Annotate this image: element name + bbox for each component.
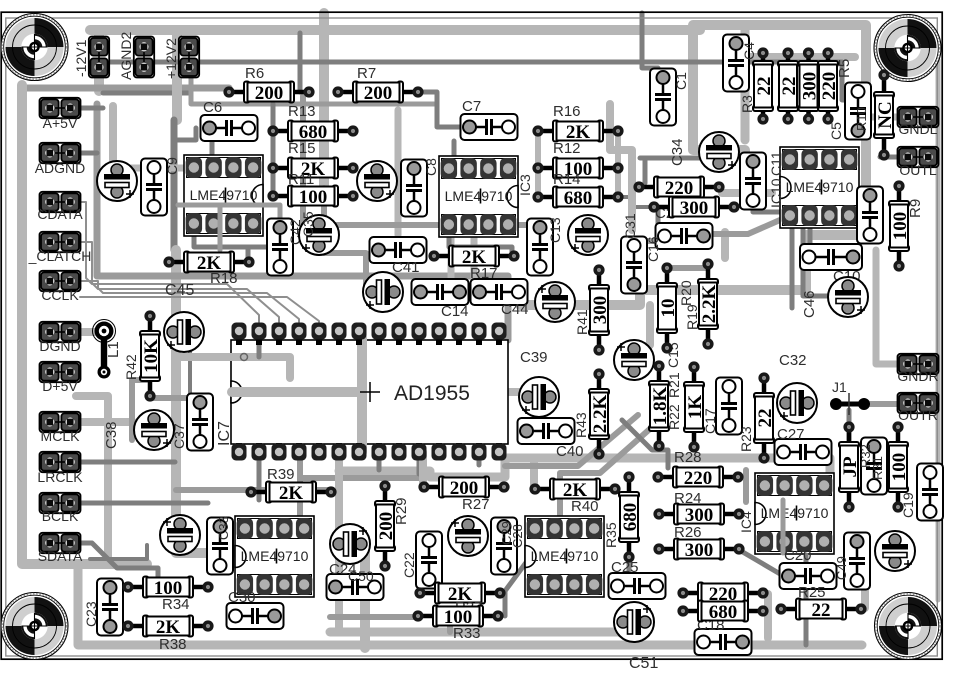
connector LRCLK <box>40 452 81 472</box>
wire <box>530 458 538 487</box>
electrolytic capacitor E9 <box>614 340 654 380</box>
resistor 220 <box>677 583 768 605</box>
svg-text:R22: R22 <box>666 404 682 430</box>
resistor R12 100 <box>532 158 623 180</box>
svg-text:R7: R7 <box>357 65 376 82</box>
capacitor Cx (vertical) <box>861 438 887 495</box>
svg-text:MCLK: MCLK <box>41 428 81 444</box>
svg-text:R5: R5 <box>836 59 853 78</box>
wire <box>330 614 418 620</box>
svg-text:C20: C20 <box>784 547 812 564</box>
svg-text:C41: C41 <box>392 259 420 276</box>
svg-text:R14: R14 <box>553 171 581 188</box>
connector -12V1 <box>89 37 109 78</box>
resistor R29 200 (vertical) <box>375 480 397 571</box>
op-amp IC3 footprint <box>439 156 518 237</box>
wire <box>741 30 750 140</box>
wire <box>246 247 251 262</box>
svg-text:C27: C27 <box>777 426 805 443</box>
capacitor C20 <box>780 563 837 589</box>
inductor L1 <box>93 320 116 379</box>
svg-text:C49: C49 <box>834 556 849 580</box>
wire <box>339 458 830 477</box>
svg-text:DGND: DGND <box>39 338 80 354</box>
resistor 22 (vertical) <box>778 47 800 124</box>
capacitor C1 (vertical) <box>650 69 676 126</box>
svg-text:R20: R20 <box>678 280 694 306</box>
resistor R34 100 <box>122 577 213 599</box>
svg-text:R13: R13 <box>288 103 316 120</box>
svg-text:R24: R24 <box>674 490 702 507</box>
wire <box>70 543 158 578</box>
svg-text:R11: R11 <box>288 171 314 188</box>
svg-text:2.2K: 2.2K <box>699 285 720 324</box>
wire <box>257 340 262 357</box>
electrolytic capacitor E1 <box>97 161 137 201</box>
svg-text:C24: C24 <box>329 561 357 578</box>
svg-text:100: 100 <box>889 453 910 482</box>
svg-text:AGND2: AGND2 <box>118 32 134 80</box>
svg-text:R29: R29 <box>393 497 410 525</box>
wire <box>303 96 530 225</box>
resistor R40 2K <box>529 479 620 501</box>
wire <box>319 13 329 190</box>
mounting hole <box>874 15 941 82</box>
electrolytic capacitor C24 <box>330 524 370 564</box>
capacitor C4 (vertical) <box>723 35 749 92</box>
wire <box>781 500 786 553</box>
svg-text:300: 300 <box>680 198 709 219</box>
svg-text:R27: R27 <box>462 496 490 513</box>
wire <box>880 155 898 160</box>
svg-text:C11: C11 <box>768 151 784 176</box>
wire <box>72 418 133 426</box>
capacitor C49 (vertical) <box>844 533 870 590</box>
wire <box>804 555 809 645</box>
wire <box>70 281 299 322</box>
wire <box>300 478 423 487</box>
svg-text:R28: R28 <box>674 449 702 466</box>
resistor R42 10K (vertical) <box>140 310 162 401</box>
svg-text:C28: C28 <box>510 524 525 548</box>
resistor R22 1K (vertical) <box>684 361 706 452</box>
electrolytic capacitor E5 <box>299 215 339 255</box>
wire <box>847 410 852 440</box>
electrolytic capacitor C46 <box>828 277 868 317</box>
resistor R9 100 (vertical) <box>889 180 911 271</box>
wire <box>790 227 795 308</box>
electrolytic capacitor E17 <box>875 531 915 571</box>
svg-text:300: 300 <box>590 296 611 325</box>
wire <box>610 104 632 230</box>
wire <box>377 452 382 470</box>
svg-text:C40: C40 <box>556 443 584 460</box>
capacitor C23 (vertical) <box>97 579 123 636</box>
svg-text:LME49710: LME49710 <box>531 548 599 564</box>
wire <box>643 158 648 183</box>
svg-text:22: 22 <box>779 77 800 96</box>
wire <box>447 620 453 632</box>
svg-text:R42: R42 <box>123 354 139 380</box>
wire <box>864 401 898 407</box>
svg-text:C44: C44 <box>501 301 529 318</box>
wire <box>174 128 196 140</box>
svg-text:C6: C6 <box>203 99 222 116</box>
electrolytic capacitor E2 <box>357 161 397 201</box>
svg-text:10K: 10K <box>141 339 162 373</box>
wire <box>861 570 869 608</box>
wire <box>803 227 828 296</box>
wire <box>335 452 343 630</box>
svg-text:ADGND: ADGND <box>35 160 86 176</box>
svg-text:C39: C39 <box>520 349 548 366</box>
capacitor C29 (vertical) <box>491 518 517 575</box>
wire <box>764 594 772 638</box>
connector A+5V <box>40 98 81 118</box>
wire <box>232 387 362 397</box>
svg-text:22: 22 <box>754 77 775 96</box>
svg-text:C4: C4 <box>741 42 757 60</box>
svg-text:C31: C31 <box>622 213 638 239</box>
svg-text:R10: R10 <box>854 107 869 131</box>
op-amp IC1 footprint <box>184 155 263 236</box>
wire <box>743 470 749 502</box>
resistor 300 (vertical) <box>799 47 821 124</box>
connector CDATA <box>40 192 81 212</box>
electrolytic capacitor C32e <box>777 383 817 423</box>
wire <box>109 106 117 160</box>
wire <box>22 85 229 92</box>
wire <box>210 120 215 158</box>
wire <box>505 549 536 616</box>
capacitor C22 (vertical) <box>416 532 442 589</box>
electrolytic capacitor C34 <box>699 132 739 172</box>
wire <box>90 25 700 35</box>
svg-text:680: 680 <box>620 503 641 532</box>
svg-text:R40: R40 <box>571 498 599 515</box>
wire <box>560 420 660 516</box>
svg-text:IC10: IC10 <box>768 178 784 208</box>
electrolytic capacitor E15 <box>448 516 488 556</box>
wire <box>640 156 700 161</box>
svg-text:R3: R3 <box>739 95 755 113</box>
capacitor C13 (vertical) <box>527 219 553 276</box>
resistor R17 2K <box>428 246 519 268</box>
capacitor C25 <box>609 573 666 599</box>
connector BCLK <box>40 493 81 513</box>
svg-text:R17: R17 <box>470 265 498 282</box>
mounting hole <box>1 593 68 660</box>
op-amp IC5 footprint <box>235 516 314 597</box>
wire <box>194 218 280 247</box>
wire <box>94 30 104 91</box>
wire <box>360 540 370 648</box>
wire <box>90 545 147 559</box>
wire <box>448 218 455 282</box>
resistor R33 100 <box>412 606 503 628</box>
electrolytic capacitor E4 <box>568 215 608 255</box>
wire <box>330 628 645 637</box>
wire <box>70 106 103 111</box>
resistor 100 (vertical) <box>888 421 910 512</box>
wire <box>618 197 653 207</box>
capacitor C27h <box>775 439 832 465</box>
svg-text:R23: R23 <box>738 426 754 452</box>
wire <box>70 151 97 156</box>
capacitor C18 <box>695 629 752 655</box>
capacitor C43 (vertical) <box>857 187 883 244</box>
wire <box>722 189 772 197</box>
wire <box>191 67 437 104</box>
op-amp IC4 footprint <box>755 473 834 554</box>
connector AGND2 <box>134 37 154 78</box>
resistor R43 2.2K (vertical) <box>589 368 611 459</box>
wire <box>178 205 280 222</box>
svg-text:C22: C22 <box>401 552 417 578</box>
wire <box>706 220 780 234</box>
svg-text:JP: JP <box>840 456 861 478</box>
resistor R37 2K <box>414 583 505 605</box>
resistor R25 22 <box>775 599 866 621</box>
wire <box>471 218 478 282</box>
svg-text:-12V1: -12V1 <box>73 39 89 77</box>
svg-text:IC7: IC7 <box>216 421 233 446</box>
wire <box>110 62 858 122</box>
svg-text:R18: R18 <box>210 270 238 287</box>
svg-text:100: 100 <box>299 187 328 208</box>
capacitor C41 <box>370 237 427 263</box>
wire <box>324 188 366 285</box>
wire <box>129 380 135 440</box>
wire <box>419 452 427 485</box>
resistor R38 2K <box>122 616 213 638</box>
connector _CLATCH <box>40 232 81 252</box>
connector DGND <box>40 322 81 342</box>
wire <box>78 564 862 645</box>
electrolytic capacitor C39e <box>519 377 559 417</box>
wire <box>188 350 192 402</box>
wire <box>477 452 482 465</box>
capacitor C9 (vertical) <box>141 159 167 216</box>
svg-text:R16: R16 <box>553 103 581 120</box>
resistor R11 100 <box>267 186 358 208</box>
wire <box>103 91 191 96</box>
svg-text:GNDR: GNDR <box>897 368 938 384</box>
connector GNDR <box>898 354 939 374</box>
svg-text:A+5V: A+5V <box>43 115 78 131</box>
wire <box>132 377 148 383</box>
svg-text:R34: R34 <box>162 596 190 613</box>
electrolytic capacitor E13 <box>160 515 200 555</box>
resistor R23 22 (vertical) <box>754 372 776 463</box>
svg-text:C51: C51 <box>629 655 658 672</box>
wire <box>449 218 512 257</box>
electrolytic capacitor E6 <box>535 282 575 322</box>
wire <box>667 265 708 271</box>
svg-text:_CLATCH: _CLATCH <box>28 248 92 264</box>
resistor R7 200 <box>332 82 423 104</box>
resistor 1.8K (vertical) <box>649 360 671 451</box>
capacitor C7 <box>461 114 518 140</box>
svg-text:680: 680 <box>564 188 593 209</box>
resistor 680 <box>677 601 768 623</box>
svg-text:OUTL: OUTL <box>899 162 937 178</box>
mounting hole <box>875 593 942 660</box>
wire <box>80 297 319 322</box>
wire <box>721 232 729 258</box>
svg-text:1K: 1K <box>685 395 706 420</box>
svg-text:C34: C34 <box>669 138 686 166</box>
resistor R35 680 (vertical) <box>619 471 641 562</box>
resistor R41 300 (vertical) <box>589 264 611 355</box>
op-amp IC11 footprint <box>780 147 859 228</box>
svg-text:LME49710: LME49710 <box>190 187 258 203</box>
svg-text:680: 680 <box>709 602 738 623</box>
svg-text:R43: R43 <box>573 412 589 438</box>
svg-text:J1: J1 <box>832 379 847 395</box>
wire <box>628 238 684 244</box>
electrolytic capacitor E5b <box>363 272 403 312</box>
AD1955 pins <box>236 331 242 345</box>
svg-text:R26: R26 <box>674 524 702 541</box>
svg-text:C33: C33 <box>216 516 231 540</box>
wire <box>866 114 898 121</box>
connector SDATA <box>40 533 81 553</box>
resistor R15 2K <box>267 158 358 180</box>
capacitor C14 <box>412 279 469 305</box>
svg-text:R38: R38 <box>159 636 187 653</box>
resistor R18 2K <box>163 252 254 274</box>
wire <box>150 395 187 401</box>
svg-text:200: 200 <box>364 83 393 104</box>
resistor R14 680 <box>532 187 623 209</box>
wire <box>70 202 259 322</box>
svg-text:C1: C1 <box>673 72 689 90</box>
mounting hole <box>1 14 68 81</box>
resistor 22 (vertical) <box>753 47 775 124</box>
svg-text:C38: C38 <box>103 421 120 449</box>
svg-text:SDATA: SDATA <box>38 548 83 564</box>
svg-text:AD1955: AD1955 <box>394 382 470 405</box>
capacitor C11 (vertical) <box>740 153 766 210</box>
svg-text:R33: R33 <box>453 625 481 642</box>
capacitor C42 (vertical) <box>267 219 293 276</box>
resistor R16 2K <box>532 121 623 143</box>
connector OUTL <box>898 147 939 167</box>
svg-text:C23: C23 <box>83 601 99 627</box>
svg-text:C7: C7 <box>462 98 481 115</box>
capacitor C33 (vertical) <box>207 518 233 575</box>
wire <box>505 415 638 466</box>
wire <box>622 420 668 468</box>
wire <box>452 141 457 158</box>
resistor R28 220 <box>652 467 743 489</box>
connector D+5V <box>40 362 81 382</box>
svg-text:220: 220 <box>684 468 713 489</box>
capacitor C5 (vertical) <box>845 83 871 140</box>
svg-text:C46: C46 <box>801 290 818 318</box>
wire <box>76 396 108 564</box>
svg-text:C35: C35 <box>300 211 316 237</box>
resistor R24 300 <box>653 504 744 526</box>
wire <box>357 338 367 452</box>
wire <box>876 250 898 364</box>
wire <box>750 53 855 61</box>
wire <box>535 131 541 197</box>
svg-text:R9: R9 <box>907 199 924 218</box>
wire <box>70 242 279 322</box>
wire <box>70 328 96 336</box>
wire <box>297 452 303 516</box>
capacitor C16h <box>656 223 713 249</box>
connector OUTR <box>898 393 939 413</box>
svg-text:R25: R25 <box>798 584 826 601</box>
wire <box>218 205 223 250</box>
svg-text:R12: R12 <box>553 140 581 157</box>
resistor R13 680 <box>267 121 358 143</box>
svg-text:300: 300 <box>685 505 714 526</box>
resistor R39 2K <box>245 482 336 504</box>
svg-text:D+5V: D+5V <box>42 378 78 394</box>
svg-text:LME49710: LME49710 <box>445 188 513 204</box>
wire <box>172 30 182 120</box>
svg-text:L1: L1 <box>105 341 122 358</box>
svg-text:300: 300 <box>799 72 820 101</box>
IC AD1955 (DAC) <box>231 340 508 444</box>
connector +12V2 <box>179 37 199 78</box>
svg-text:C25: C25 <box>611 559 639 576</box>
connector MCLK <box>40 412 81 432</box>
svg-text:C8: C8 <box>423 158 439 176</box>
svg-text:LME49710: LME49710 <box>761 505 829 521</box>
svg-text:C9: C9 <box>164 157 180 175</box>
resistor R5 220 (vertical) <box>818 47 840 124</box>
connector GNDL <box>898 107 939 127</box>
resistor 300 <box>648 197 739 219</box>
svg-text:C16: C16 <box>645 236 661 262</box>
capacitor C17 (vertical) <box>716 378 742 435</box>
svg-text:+12V2: +12V2 <box>163 38 179 79</box>
wire <box>936 60 941 600</box>
svg-text:2K: 2K <box>279 483 304 504</box>
resistor R20 2.2K (vertical) <box>698 258 720 349</box>
svg-text:22: 22 <box>812 600 831 621</box>
resistor R19 10 (vertical) <box>657 262 679 353</box>
svg-text:OUTR: OUTR <box>898 407 938 423</box>
wire <box>298 33 303 92</box>
wire <box>176 250 232 553</box>
resistor NC (vertical) <box>874 69 896 160</box>
wire <box>271 104 276 196</box>
wire <box>642 13 658 68</box>
wire <box>753 205 790 215</box>
svg-text:IC3: IC3 <box>517 174 533 196</box>
wire <box>615 131 621 197</box>
capacitor C50 <box>327 574 384 600</box>
svg-text:CDATA: CDATA <box>37 206 83 222</box>
wire <box>395 110 402 235</box>
capacitor C12 <box>800 244 862 270</box>
svg-text:R41: R41 <box>574 309 590 335</box>
svg-text:C30: C30 <box>228 589 256 606</box>
svg-text:C5: C5 <box>828 122 844 140</box>
jumper J1 <box>836 402 864 407</box>
capacitor C30 <box>227 603 284 629</box>
svg-text:LME49710: LME49710 <box>786 179 854 195</box>
capacitor C37 (vertical) <box>187 394 213 451</box>
electrolytic capacitor E7 <box>164 312 204 352</box>
wire <box>627 557 632 594</box>
